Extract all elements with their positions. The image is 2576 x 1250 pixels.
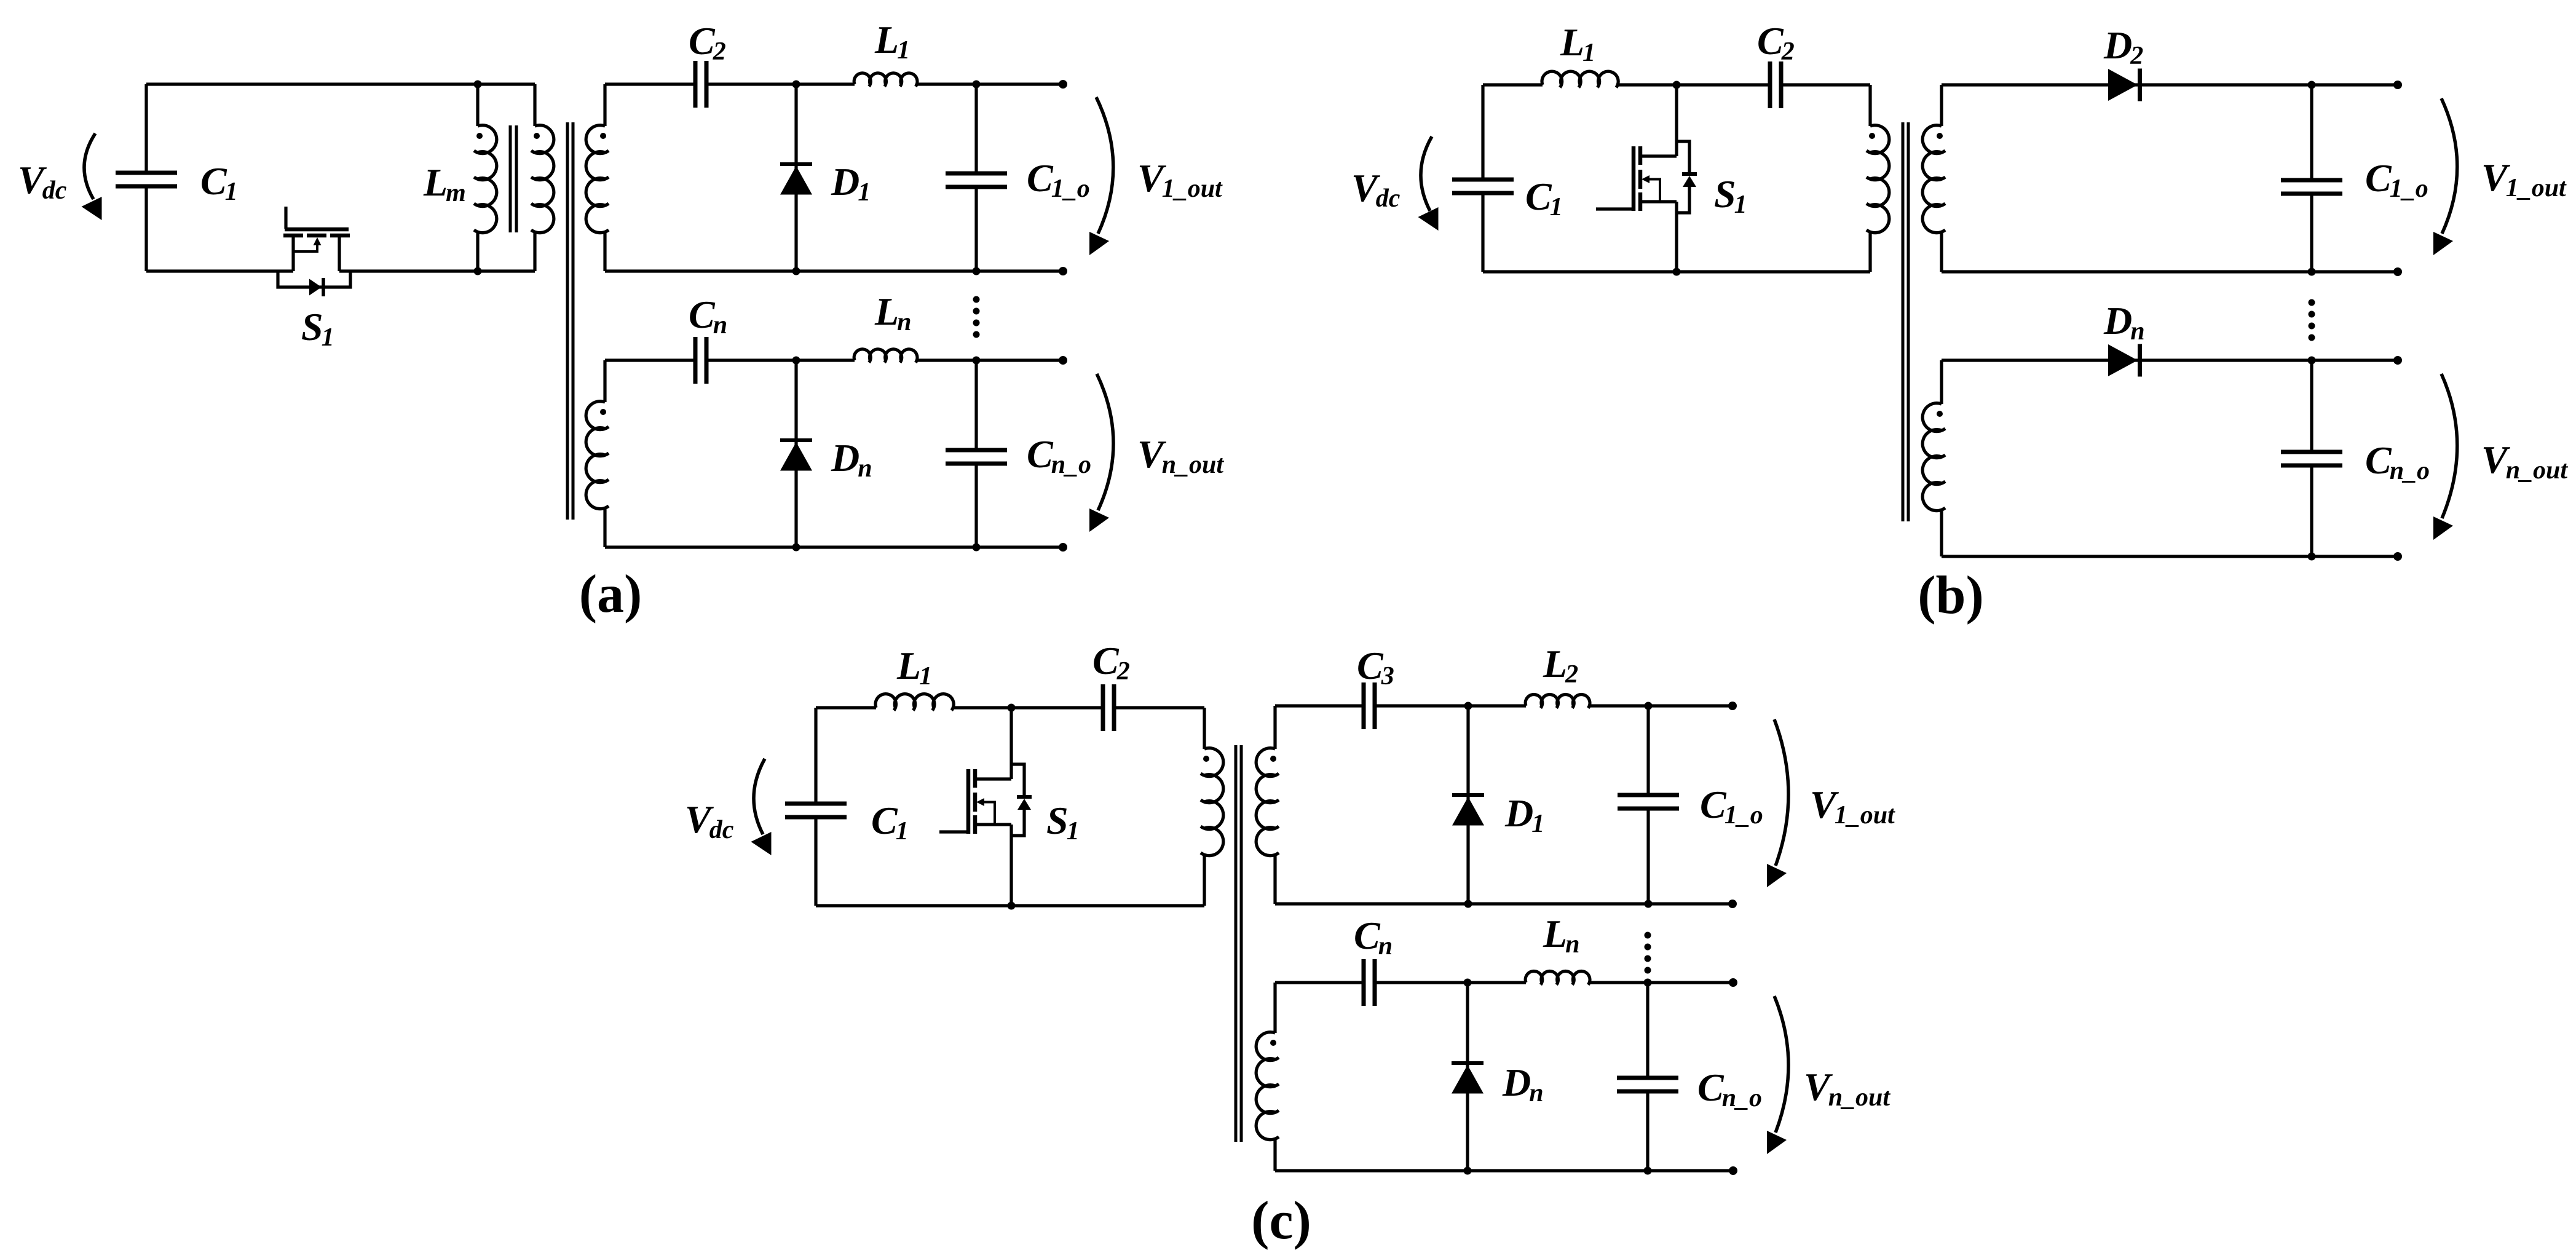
transformer primary winding (a) bbox=[531, 125, 554, 233]
wire (a) primary winding bottom lead bbox=[533, 232, 536, 271]
capacitor C2 (c) bbox=[1103, 684, 1114, 731]
label C1 (c) bbox=[871, 799, 909, 845]
terminal (b) secn minus bbox=[2393, 552, 2402, 561]
svg-text:3: 3 bbox=[1381, 662, 1394, 690]
wire (c) primary left lower bbox=[814, 818, 817, 906]
svg-text:1_o: 1_o bbox=[1051, 175, 1090, 203]
svg-text:D: D bbox=[831, 436, 859, 480]
label L1 (b) bbox=[1560, 20, 1595, 67]
label Ln (c) bbox=[1543, 912, 1579, 959]
junction (c) S1 drain bbox=[1008, 704, 1016, 712]
junction (b) secn Cn_o top bbox=[2308, 357, 2316, 365]
transformer secondary winding 1 (b) bbox=[1922, 125, 1945, 233]
capacitor Cn_o (b) bbox=[2281, 452, 2342, 465]
inductor L2 (c) bbox=[1525, 695, 1590, 708]
capacitor Cn (a) bbox=[695, 337, 706, 384]
junction (b) S1 source bbox=[1673, 268, 1681, 276]
label S1 (c) bbox=[1046, 799, 1080, 845]
capacitor C3 (c) bbox=[1364, 682, 1375, 729]
label C2 (b) bbox=[1757, 19, 1795, 66]
wire (b) secn left upper bbox=[1940, 360, 1943, 404]
wire (c) sec1 top rail seg2 bbox=[1375, 704, 1526, 707]
wire (b) primary winding top lead bbox=[1868, 85, 1871, 126]
transformer secondary winding n (c) bbox=[1256, 1032, 1279, 1140]
junction (a) secn Cn_o top bbox=[973, 357, 981, 365]
svg-text:1_out: 1_out bbox=[1162, 175, 1223, 203]
label Cn_o (b) bbox=[2365, 438, 2430, 485]
inductor Ln (a) bbox=[854, 349, 917, 363]
arrow Vdc (a) bbox=[82, 133, 102, 220]
caption (a) bbox=[579, 564, 642, 624]
svg-text:1: 1 bbox=[919, 662, 932, 690]
label V1_out (b) bbox=[2481, 156, 2567, 202]
svg-text:1_o: 1_o bbox=[2390, 175, 2428, 203]
svg-text:(c): (c) bbox=[1251, 1191, 1311, 1250]
core (a) Lm-primary bbox=[510, 125, 516, 232]
label V1_out (c) bbox=[1810, 783, 1895, 829]
capacitor Cn (c) bbox=[1364, 959, 1375, 1006]
svg-text:D: D bbox=[1502, 1061, 1531, 1104]
transistor S1 (c) MOSFET bbox=[939, 708, 1032, 906]
svg-text:C: C bbox=[200, 159, 227, 203]
wire (b) sec1 bottom rail bbox=[1942, 270, 2398, 273]
terminal (b) sec1 minus bbox=[2393, 267, 2402, 276]
label Vdc (c) bbox=[685, 797, 734, 844]
transformer primary winding (c) bbox=[1201, 748, 1223, 856]
label Vn_out (b) bbox=[2481, 438, 2568, 485]
wire (a) primary bottom rail right bbox=[339, 269, 535, 272]
wire (b) sec1 left upper bbox=[1940, 85, 1943, 126]
svg-text:C: C bbox=[1757, 19, 1784, 63]
transformer primary winding (b) bbox=[1867, 125, 1889, 233]
terminal (c) secn minus bbox=[1729, 1166, 1737, 1175]
transformer secondary winding n (a) bbox=[586, 402, 609, 509]
wire (b) sec1 left lower bbox=[1940, 232, 1943, 272]
svg-text:1: 1 bbox=[322, 323, 334, 352]
label Vdc (b) bbox=[1351, 166, 1401, 213]
svg-text:n_o: n_o bbox=[1722, 1084, 1762, 1112]
label C1_o (c) bbox=[1700, 783, 1763, 829]
wire (c) C1_o branch upper bbox=[1646, 706, 1650, 794]
junction (c) secn Cn_o bottom bbox=[1644, 1167, 1652, 1175]
junction (a) secn Dn top bbox=[792, 357, 800, 365]
ellipsis dots (a) bbox=[973, 296, 980, 338]
wire (b) primary bottom rail bbox=[1483, 270, 1870, 273]
wire (b) sec1 top rail bbox=[1942, 83, 2398, 86]
wire (a) C1_o branch upper bbox=[974, 84, 978, 173]
transformer core (c) bbox=[1236, 745, 1241, 1142]
terminal (c) sec1 minus bbox=[1728, 900, 1737, 908]
svg-text:1_out: 1_out bbox=[2506, 174, 2567, 202]
wire (a) secn top rail seg3 bbox=[917, 358, 1063, 362]
wire (a) Dn branch bbox=[794, 360, 797, 547]
svg-text:C: C bbox=[1027, 156, 1054, 200]
svg-text:1: 1 bbox=[1734, 191, 1747, 219]
diode Dn (c) bbox=[1452, 1063, 1484, 1094]
wire (a) secn top rail seg1 bbox=[605, 358, 695, 362]
label Ln (a) bbox=[874, 290, 911, 336]
arrow V1_out (b) bbox=[2433, 98, 2457, 255]
capacitor C1 (b) bbox=[1452, 180, 1514, 193]
svg-text:C: C bbox=[871, 799, 898, 842]
junction (a) sec1 D1 bottom bbox=[792, 267, 800, 275]
wire (c) secn bottom rail bbox=[1275, 1169, 1733, 1172]
label Vn_out (c) bbox=[1804, 1065, 1891, 1112]
wire (c) primary top rail seg2 bbox=[953, 706, 1102, 709]
caption (b) bbox=[1918, 566, 1984, 625]
label C3 (c) bbox=[1357, 644, 1394, 690]
wire (a) primary winding top lead bbox=[533, 84, 536, 126]
inductor L1 (b) bbox=[1542, 71, 1618, 87]
svg-text:(b): (b) bbox=[1918, 566, 1984, 625]
arrow Vn_out (b) bbox=[2433, 374, 2457, 540]
wire (a) primary left branch upper bbox=[144, 84, 148, 172]
svg-text:2: 2 bbox=[1565, 660, 1578, 689]
svg-text:n: n bbox=[713, 311, 727, 339]
svg-text:1: 1 bbox=[897, 36, 910, 65]
svg-text:D: D bbox=[831, 160, 859, 204]
svg-text:1: 1 bbox=[858, 178, 871, 207]
wire (a) sec1 left upper bbox=[603, 84, 606, 126]
wire (c) sec1 top rail seg3 bbox=[1589, 704, 1732, 707]
label C2 (c) bbox=[1092, 639, 1130, 686]
label D1 (a) bbox=[831, 160, 871, 207]
wire (a) sec1 top rail seg2 bbox=[707, 82, 855, 85]
label L2 (c) bbox=[1543, 642, 1578, 689]
svg-text:2: 2 bbox=[2130, 42, 2143, 70]
junction (c) secn Cn_o top bbox=[1644, 979, 1652, 987]
capacitor Cn_o (c) bbox=[1617, 1078, 1678, 1091]
svg-text:C: C bbox=[689, 293, 716, 336]
wire (a) sec1 top rail seg3 bbox=[917, 82, 1063, 85]
svg-text:n: n bbox=[2130, 317, 2144, 346]
junction (b) sec1 C1_o bottom bbox=[2308, 268, 2316, 276]
junction (c) S1 source bbox=[1008, 902, 1016, 910]
label Cn_o (c) bbox=[1697, 1066, 1762, 1112]
transformer secondary winding 1 (a) bbox=[586, 125, 609, 233]
svg-text:S: S bbox=[301, 305, 323, 349]
label C1_o (b) bbox=[2365, 156, 2428, 203]
terminal (a) sec1 plus bbox=[1059, 80, 1067, 89]
svg-text:n: n bbox=[897, 308, 911, 336]
svg-text:dc: dc bbox=[42, 176, 67, 205]
svg-text:1: 1 bbox=[1582, 39, 1595, 67]
wire (a) sec1 top rail seg1 bbox=[605, 82, 695, 85]
transformer core (a) bbox=[567, 122, 573, 520]
wire (a) secn left lower bbox=[603, 508, 606, 547]
wire (c) primary top rail seg1 bbox=[816, 706, 876, 709]
svg-text:n_out: n_out bbox=[1828, 1083, 1891, 1112]
wire (b) primary winding bottom lead bbox=[1868, 232, 1871, 272]
label Cn_o (a) bbox=[1027, 432, 1091, 479]
capacitor C1 (a) bbox=[116, 173, 177, 186]
ellipsis dots (b) bbox=[2309, 299, 2315, 341]
transformer secondary winding n (b) bbox=[1922, 403, 1945, 511]
junction (a) Lm bottom bbox=[474, 267, 482, 275]
arrow Vdc (c) bbox=[751, 759, 772, 855]
svg-text:n: n bbox=[1529, 1079, 1543, 1107]
inductor Ln (c) bbox=[1525, 971, 1590, 985]
arrow V1_out (c) bbox=[1767, 719, 1788, 887]
label Dn (a) bbox=[831, 436, 872, 483]
svg-text:n: n bbox=[1565, 930, 1579, 959]
svg-text:D: D bbox=[2103, 299, 2132, 342]
wire (a) Cn_o branch lower bbox=[974, 464, 978, 547]
inductor L1 (a) bbox=[854, 73, 917, 87]
svg-text:C: C bbox=[689, 19, 716, 63]
label C2 (a) bbox=[689, 19, 726, 66]
label C1_o (a) bbox=[1027, 156, 1090, 203]
terminal (a) secn plus bbox=[1059, 356, 1067, 365]
diode D1 (a) bbox=[780, 164, 812, 195]
label Lm (a) bbox=[423, 160, 466, 207]
wire (b) Cn_o branch upper bbox=[2310, 360, 2313, 451]
svg-text:2: 2 bbox=[1116, 657, 1130, 686]
wire (a) C1_o branch lower bbox=[974, 188, 978, 271]
svg-text:1: 1 bbox=[896, 817, 909, 845]
capacitor Cn_o (a) bbox=[946, 450, 1007, 464]
label S1 (b) bbox=[1714, 172, 1747, 219]
svg-text:n_out: n_out bbox=[2506, 456, 2569, 485]
svg-text:D: D bbox=[2103, 23, 2132, 67]
wire (c) primary top rail seg3 bbox=[1115, 706, 1204, 709]
svg-text:1: 1 bbox=[1550, 193, 1563, 221]
capacitor C2 (b) bbox=[1770, 61, 1781, 108]
svg-text:C: C bbox=[2365, 438, 2392, 482]
wire (c) C1_o branch lower bbox=[1646, 809, 1650, 904]
svg-text:1_o: 1_o bbox=[1725, 801, 1763, 829]
svg-text:C: C bbox=[1027, 432, 1054, 476]
capacitor C1_o (b) bbox=[2281, 180, 2342, 194]
svg-text:(a): (a) bbox=[579, 564, 642, 624]
wire (c) D1 branch bbox=[1466, 706, 1469, 904]
svg-text:1_out: 1_out bbox=[1835, 801, 1895, 829]
wire (a) Lm bottom lead bbox=[476, 232, 479, 271]
capacitor C2 (a) bbox=[695, 61, 706, 108]
wire (c) secn left lower bbox=[1273, 1139, 1276, 1171]
wire (c) primary winding bottom lead bbox=[1203, 855, 1206, 906]
wire (b) secn bottom rail bbox=[1942, 555, 2398, 558]
wire (b) Cn_o branch lower bbox=[2310, 466, 2313, 556]
wire (c) sec1 left lower bbox=[1273, 855, 1276, 904]
junction (a) secn Cn_o bottom bbox=[973, 544, 981, 552]
junction (a) Lm top bbox=[474, 81, 482, 89]
label C1 (a) bbox=[200, 159, 238, 206]
label Dn (b) bbox=[2103, 299, 2145, 346]
wire (c) sec1 left upper bbox=[1273, 706, 1276, 749]
diode Dn (a) bbox=[780, 440, 812, 471]
junction (a) sec1 C1_o top bbox=[973, 81, 981, 89]
svg-text:L: L bbox=[423, 160, 448, 204]
svg-text:dc: dc bbox=[709, 816, 734, 844]
svg-text:n_o: n_o bbox=[2390, 457, 2430, 485]
label D2 (b) bbox=[2103, 23, 2143, 70]
junction (a) secn Dn bottom bbox=[792, 544, 800, 552]
svg-text:C: C bbox=[1700, 783, 1727, 826]
terminal (a) sec1 minus bbox=[1059, 267, 1067, 275]
inductor Lm winding (a) bbox=[474, 125, 497, 233]
label C1 (b) bbox=[1525, 175, 1563, 221]
wire (a) primary top rail bbox=[146, 82, 535, 85]
wire (a) sec1 bottom rail bbox=[605, 269, 1063, 272]
svg-text:1: 1 bbox=[1067, 817, 1080, 845]
terminal (b) sec1 plus bbox=[2393, 81, 2402, 89]
label Cn (a) bbox=[689, 293, 727, 339]
svg-text:L: L bbox=[896, 644, 921, 687]
arrow V1_out (a) bbox=[1089, 97, 1113, 255]
wire (c) primary winding top lead bbox=[1203, 708, 1206, 749]
ellipsis dots (c) bbox=[1645, 932, 1651, 974]
diode D2 (b) bbox=[2108, 69, 2140, 101]
svg-text:S: S bbox=[1046, 799, 1069, 842]
wire (c) secn top rail seg2 bbox=[1375, 981, 1526, 984]
transistor S1 (b) MOSFET bbox=[1596, 85, 1697, 272]
wire (a) primary bottom rail left bbox=[146, 269, 293, 272]
label V1_out (a) bbox=[1137, 156, 1223, 203]
wire (a) primary left branch lower bbox=[144, 187, 148, 271]
diode D1 (c) bbox=[1452, 795, 1484, 826]
wire (b) primary top rail seg2 bbox=[1618, 83, 1769, 86]
arrow Vdc (b) bbox=[1418, 136, 1439, 231]
wire (c) secn top rail seg1 bbox=[1275, 981, 1363, 984]
terminal (b) secn plus bbox=[2393, 356, 2402, 365]
svg-text:n_out: n_out bbox=[1162, 451, 1225, 479]
svg-text:C: C bbox=[1525, 175, 1552, 218]
svg-text:1: 1 bbox=[225, 178, 238, 206]
terminal (a) secn minus bbox=[1059, 543, 1067, 552]
wire (c) Dn branch bbox=[1466, 983, 1469, 1171]
label L1 (a) bbox=[874, 18, 910, 65]
label Vn_out (a) bbox=[1137, 432, 1224, 479]
junction (b) secn Cn_o bottom bbox=[2308, 553, 2316, 561]
junction (a) sec1 C1_o bottom bbox=[973, 267, 981, 275]
junction (c) sec1 D1 top bbox=[1464, 702, 1472, 710]
svg-text:S: S bbox=[1714, 172, 1736, 216]
wire (a) Lm top lead bbox=[476, 84, 479, 126]
label Dn (c) bbox=[1502, 1061, 1544, 1107]
wire (b) primary left upper bbox=[1481, 85, 1484, 179]
capacitor C1_o (a) bbox=[946, 173, 1007, 187]
wire (b) primary top rail seg3 bbox=[1782, 83, 1870, 86]
wire (a) secn top rail seg2 bbox=[707, 358, 855, 362]
wire (c) Cn_o branch lower bbox=[1646, 1092, 1649, 1171]
junction (c) sec1 C1_o top bbox=[1645, 702, 1653, 710]
wire (b) primary top rail seg1 bbox=[1483, 83, 1543, 86]
svg-text:1: 1 bbox=[1531, 810, 1544, 838]
capacitor C1 (c) bbox=[785, 804, 847, 817]
arrow Vn_out (c) bbox=[1767, 996, 1788, 1154]
wire (c) secn left upper bbox=[1273, 983, 1276, 1033]
svg-text:L: L bbox=[874, 290, 899, 333]
junction (c) secn Dn bottom bbox=[1464, 1167, 1472, 1175]
wire (a) Cn_o branch upper bbox=[974, 360, 978, 449]
wire (b) secn left lower bbox=[1940, 510, 1943, 556]
wire (a) secn left upper bbox=[603, 360, 606, 402]
svg-text:m: m bbox=[446, 179, 466, 207]
wire (c) sec1 top rail seg1 bbox=[1275, 704, 1363, 707]
label D1 (c) bbox=[1504, 791, 1544, 838]
capacitor C1_o (c) bbox=[1618, 795, 1679, 809]
wire (c) primary left upper bbox=[814, 708, 817, 803]
svg-text:L: L bbox=[1543, 642, 1567, 686]
wire (c) sec1 bottom rail bbox=[1275, 902, 1732, 905]
label L1 (c) bbox=[896, 644, 932, 690]
junction (c) sec1 C1_o bottom bbox=[1645, 900, 1653, 908]
wire (b) secn top rail bbox=[1942, 358, 2398, 362]
svg-text:2: 2 bbox=[1781, 38, 1795, 66]
svg-text:L: L bbox=[1560, 20, 1584, 64]
label S1 (a) bbox=[301, 305, 334, 352]
transistor S1 (a) MOSFET bbox=[278, 207, 350, 296]
wire (b) C1_o branch upper bbox=[2310, 85, 2313, 180]
wire (c) secn top rail seg3 bbox=[1589, 981, 1733, 984]
wire (b) C1_o branch lower bbox=[2310, 194, 2313, 272]
label Vdc (a) bbox=[18, 158, 67, 205]
svg-text:n: n bbox=[858, 454, 872, 483]
wire (b) primary left lower bbox=[1481, 194, 1484, 272]
svg-text:C: C bbox=[1354, 914, 1381, 957]
svg-text:C: C bbox=[1697, 1066, 1725, 1109]
svg-text:C: C bbox=[2365, 156, 2392, 200]
junction (c) secn Dn top bbox=[1464, 979, 1472, 987]
transformer core (b) bbox=[1903, 122, 1908, 521]
wire (a) secn bottom rail bbox=[605, 545, 1063, 548]
wire (c) primary bottom rail bbox=[816, 904, 1204, 907]
wire (a) sec1 left lower bbox=[603, 232, 606, 271]
caption (c) bbox=[1251, 1191, 1311, 1250]
svg-text:2: 2 bbox=[713, 38, 726, 66]
junction (b) sec1 C1_o top bbox=[2308, 81, 2316, 89]
inductor L1 (c) bbox=[875, 694, 954, 711]
svg-text:dc: dc bbox=[1376, 184, 1401, 213]
wire (a) D1 branch bbox=[794, 84, 797, 271]
terminal (c) sec1 plus bbox=[1728, 702, 1737, 710]
svg-text:L: L bbox=[1543, 912, 1567, 955]
svg-text:C: C bbox=[1357, 644, 1384, 687]
terminal (c) secn plus bbox=[1729, 978, 1737, 987]
junction (b) S1 drain bbox=[1673, 81, 1681, 89]
svg-text:L: L bbox=[874, 18, 899, 61]
wire (c) Cn_o branch upper bbox=[1646, 983, 1649, 1077]
junction (c) sec1 D1 bottom bbox=[1464, 900, 1472, 908]
svg-text:n_o: n_o bbox=[1051, 451, 1091, 479]
svg-text:D: D bbox=[1504, 791, 1533, 835]
label Cn (c) bbox=[1354, 914, 1393, 960]
diode Dn (b) bbox=[2108, 344, 2140, 377]
svg-text:C: C bbox=[1092, 639, 1120, 682]
arrow Vn_out (a) bbox=[1089, 374, 1113, 532]
junction (a) sec1 D1 top bbox=[792, 81, 800, 89]
transformer secondary winding 1 (c) bbox=[1256, 748, 1279, 856]
svg-text:n: n bbox=[1378, 932, 1393, 960]
